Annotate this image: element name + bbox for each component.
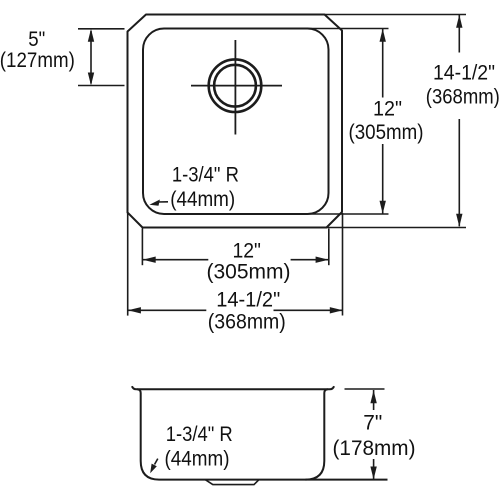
- drain inner circle: [214, 65, 256, 107]
- dimension line 5in vertical: [90, 31, 92, 84]
- svg-text:7": 7": [363, 411, 382, 434]
- extension line, 14-1/2in-horizontal left (rim left edge extended down): [127, 212, 129, 316]
- arrowhead 12in-horizontal left: [143, 257, 156, 263]
- svg-text:(178mm): (178mm): [333, 437, 416, 460]
- arrowhead 7in down: [370, 467, 376, 480]
- dimension line 14-1/2in vertical right, upper segment: [458, 15, 460, 53]
- extension line, 14-1/2in-vertical bottom (rim bottom edge extended right): [326, 227, 466, 229]
- arrowhead 12in-horizontal right: [316, 257, 329, 263]
- sink rim outline (top view, chamfered corners): [128, 15, 343, 228]
- drain outer circle: [209, 59, 262, 112]
- svg-text:1-3/4" R: 1-3/4" R: [172, 163, 239, 186]
- extension line, 12in-horizontal left (below bottom-left bowl corner): [141, 229, 143, 266]
- svg-text:12": 12": [232, 240, 261, 263]
- extension line, 12in-vertical bottom (bowl bottom edge extended right): [300, 213, 389, 215]
- svg-text:1-3/4" R: 1-3/4" R: [166, 423, 233, 446]
- dimension line 7in vertical, lower segment: [373, 459, 375, 479]
- svg-text:14-1/2": 14-1/2": [216, 289, 280, 312]
- dimension line 12in vertical right, upper segment: [382, 29, 384, 98]
- arrowhead 12in-vertical up: [380, 29, 386, 42]
- arrowhead 14-1/2in-vertical down: [456, 214, 462, 227]
- extension line, 14-1/2in-vertical top (rim top edge extended right): [324, 14, 466, 16]
- dimension line 14-1/2in horizontal bottom, left segment: [128, 309, 206, 311]
- arrowhead 5in down: [88, 73, 94, 86]
- extension line, 5in bottom (drain center level): [78, 85, 125, 87]
- profile drain bump: [206, 480, 259, 485]
- sink bowl outline (top view, rounded square): [143, 29, 329, 215]
- dimension line 14-1/2in horizontal bottom, right segment: [274, 309, 344, 311]
- svg-text:(44mm): (44mm): [170, 188, 235, 211]
- corner radius leader arrow (profile view): [155, 459, 158, 465]
- drain crosshair vertical centerline: [234, 40, 236, 135]
- svg-text:(44mm): (44mm): [165, 448, 230, 471]
- dimension line 12in horizontal bottom, right segment: [291, 259, 328, 261]
- profile left wall and bottom: [137, 389, 387, 479]
- arrowhead 7in up: [370, 390, 376, 403]
- dimension line 12in vertical right, lower segment: [382, 144, 384, 214]
- svg-text:12": 12": [373, 98, 402, 121]
- svg-text:5": 5": [28, 28, 45, 51]
- svg-text:14-1/2": 14-1/2": [433, 62, 495, 85]
- arrowhead 14-1/2in-vertical up: [456, 15, 462, 28]
- svg-text:(368mm): (368mm): [208, 311, 286, 334]
- corner radius leader arrow (top view): [158, 201, 169, 203]
- drain crosshair horizontal centerline: [191, 85, 282, 87]
- dimension line 12in horizontal bottom, left segment: [143, 259, 208, 261]
- dimension line 7in vertical, upper segment: [373, 390, 375, 410]
- extension line, 12in-horizontal right (below bottom-right bowl corner): [328, 229, 330, 266]
- svg-text:(368mm): (368mm): [426, 86, 500, 109]
- extension line, 7in top (profile rim level): [345, 388, 385, 390]
- extension line, 12in-vertical top (bowl top edge extended right): [300, 28, 389, 30]
- arrowhead 14-1/2in-horizontal left: [128, 307, 141, 313]
- extension line, 5in top (bowl top edge level): [78, 28, 125, 30]
- profile top edge with rim lips: [132, 386, 334, 389]
- arrowhead 12in-vertical down: [380, 201, 386, 214]
- extension line, 14-1/2in-horizontal right (rim right edge extended down): [342, 213, 344, 316]
- profile right wall: [306, 389, 328, 479]
- svg-text:(305mm): (305mm): [349, 121, 424, 144]
- svg-text:(305mm): (305mm): [207, 261, 291, 284]
- arrowhead 14-1/2in-horizontal right: [330, 307, 343, 313]
- svg-text:(127mm): (127mm): [0, 49, 75, 72]
- dimension line 14-1/2in vertical right, lower segment: [458, 119, 460, 226]
- arrowhead 5in up: [88, 29, 94, 42]
